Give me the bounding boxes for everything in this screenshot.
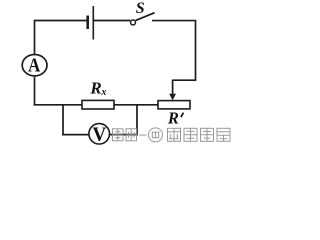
- switch S pivot: [131, 20, 136, 25]
- voltmeter V circle: [89, 124, 110, 144]
- wire wiper vertical: [172, 80, 174, 96]
- svg-text:A: A: [28, 54, 41, 76]
- wire left vertical upper: [34, 20, 36, 54]
- wire switch to top-right corner: [152, 20, 195, 22]
- wiper arrowhead: [169, 94, 176, 101]
- wire voltmeter branch right: [110, 134, 138, 136]
- switch S blade: [136, 13, 155, 21]
- wire bottom-left segment: [34, 104, 83, 106]
- svg-text:V: V: [93, 124, 107, 146]
- wire wiper jog: [173, 79, 197, 81]
- resistor Rx box: [82, 100, 114, 109]
- wire bottom-middle segment: [114, 104, 159, 106]
- battery cell negative plate: [86, 16, 89, 30]
- battery cell positive plate: [92, 6, 94, 40]
- ammeter A circle: [22, 54, 47, 75]
- wire battery to switch: [94, 20, 130, 22]
- wire left vertical lower: [34, 77, 36, 106]
- svg-text:S: S: [136, 0, 145, 17]
- svg-text:R: R: [89, 78, 101, 97]
- wire top-left segment: [35, 20, 87, 22]
- svg-text:x: x: [100, 87, 106, 98]
- wire voltmeter branch left: [62, 105, 64, 136]
- svg-text:R: R: [167, 109, 179, 128]
- wire right vertical: [195, 20, 197, 80]
- rheostat R' box: [158, 101, 190, 109]
